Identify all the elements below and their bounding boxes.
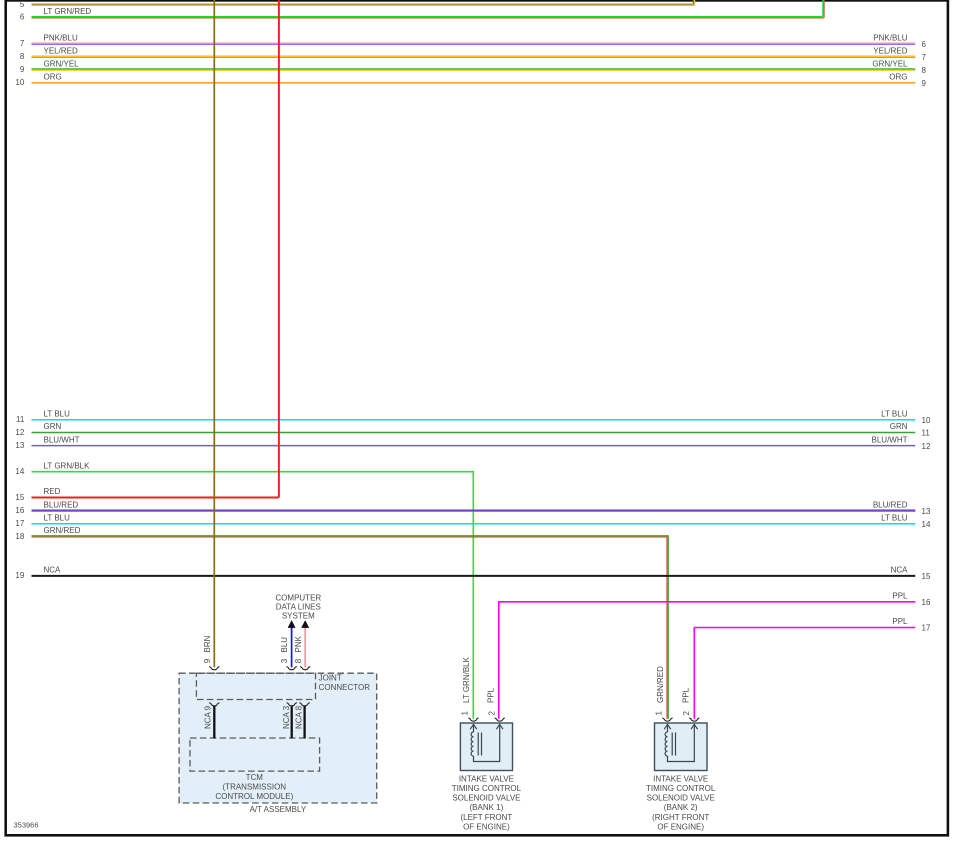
svg-text:INTAKE VALVE: INTAKE VALVE <box>459 774 514 783</box>
BRN vertical wire from off-page top to joint connector pin 9 <box>213 0 215 667</box>
svg-text:PPL: PPL <box>486 687 495 703</box>
TCM dashed box <box>190 738 320 771</box>
svg-text:GRN: GRN <box>890 422 908 431</box>
wire PPL (right pin 16) down to solenoid 1 pin 2 <box>499 602 916 719</box>
svg-text:11: 11 <box>16 415 25 424</box>
wire 5 BRN/YEL horizontal (pin 5 to x=694 turn up off-page) <box>32 0 695 5</box>
svg-text:OF ENGINE): OF ENGINE) <box>463 823 510 832</box>
svg-text:12: 12 <box>922 442 931 451</box>
svg-text:PPL: PPL <box>892 617 908 626</box>
svg-text:6: 6 <box>20 13 25 22</box>
svg-text:15: 15 <box>15 493 24 502</box>
svg-text:PNK/BLU: PNK/BLU <box>873 33 907 42</box>
wire 15 RED horizontal joining red vertical <box>32 497 279 499</box>
solenoid 2 caption <box>646 774 716 831</box>
svg-text:10: 10 <box>922 416 931 425</box>
BLU data line wire with up arrow <box>291 627 293 668</box>
svg-text:TIMING CONTROL: TIMING CONTROL <box>646 784 716 793</box>
svg-text:DATA LINES: DATA LINES <box>276 603 321 612</box>
svg-text:17: 17 <box>15 519 24 528</box>
svg-text:BLU/WHT: BLU/WHT <box>44 435 80 444</box>
svg-text:COMPUTER: COMPUTER <box>275 593 321 602</box>
solenoid valve bank 2 box <box>655 723 708 771</box>
svg-text:ORG: ORG <box>889 73 907 82</box>
wire 11 LT BLU horizontal (left pin 11 to right pin 10) <box>32 419 916 421</box>
NCA 3 internal wire between joint connector and TCM <box>291 706 293 739</box>
svg-text:TCM: TCM <box>246 773 264 782</box>
svg-text:13: 13 <box>15 441 24 450</box>
svg-text:9: 9 <box>20 65 25 74</box>
terminal cup at top of NCA 9 <box>209 703 219 706</box>
svg-text:9: 9 <box>203 658 212 663</box>
svg-text:TIMING CONTROL: TIMING CONTROL <box>452 784 522 793</box>
terminal cup at solenoid 2 pin 2 <box>689 718 699 721</box>
svg-text:INTAKE VALVE: INTAKE VALVE <box>653 774 708 783</box>
terminal cup at solenoid 2 pin 1 <box>662 718 672 721</box>
svg-text:9: 9 <box>922 79 927 88</box>
svg-text:CONNECTOR: CONNECTOR <box>319 683 371 692</box>
solenoid 1 internal circuit: pin1 arrow, coil, core, pin2 arrow <box>470 724 503 761</box>
svg-text:2: 2 <box>682 711 691 716</box>
svg-text:BLU/RED: BLU/RED <box>44 501 79 510</box>
svg-text:BLU: BLU <box>280 637 289 653</box>
svg-text:NCA 3: NCA 3 <box>282 705 291 729</box>
wire 12 GRN horizontal (left pin 12 to right pin 11) <box>32 432 916 434</box>
svg-text:353966: 353966 <box>14 821 39 830</box>
svg-text:2: 2 <box>488 711 497 716</box>
wire 19 NCA horizontal (left pin 19 to right pin 15) <box>32 575 916 577</box>
svg-text:CONTROL MODULE): CONTROL MODULE) <box>215 792 293 801</box>
wire 18 GRN/RED horizontal then down to solenoid 2 pin 1 <box>32 536 669 719</box>
svg-text:PNK: PNK <box>294 635 303 652</box>
svg-text:8: 8 <box>294 658 303 663</box>
svg-text:GRN/YEL: GRN/YEL <box>44 59 80 68</box>
svg-text:LT BLU: LT BLU <box>881 410 908 419</box>
svg-text:8: 8 <box>20 52 25 61</box>
terminal cup at solenoid 1 pin 2 <box>495 718 505 721</box>
svg-text:LT GRN/BLK: LT GRN/BLK <box>462 656 471 703</box>
svg-text:NCA: NCA <box>891 566 909 575</box>
svg-text:15: 15 <box>922 572 931 581</box>
wire 13 BLU/WHT horizontal (left pin 13 to right pin 12) <box>32 445 916 447</box>
svg-text:1: 1 <box>461 711 470 716</box>
svg-text:1: 1 <box>655 711 664 716</box>
wire 14 LT GRN/BLK horizontal then down to solenoid 1 pin 1 <box>32 472 474 719</box>
svg-text:NCA 8: NCA 8 <box>295 705 304 729</box>
wire 7 PNK/BLU horizontal (left pin 7 to right pin 6) <box>32 43 916 44</box>
svg-text:LT GRN/RED: LT GRN/RED <box>44 7 92 16</box>
svg-text:PPL: PPL <box>892 592 908 601</box>
svg-text:LT BLU: LT BLU <box>44 514 71 523</box>
wire 10 ORG horizontal (left pin 10 to right pin 9) <box>32 82 916 84</box>
svg-text:10: 10 <box>15 78 24 87</box>
svg-text:LT BLU: LT BLU <box>881 514 908 523</box>
svg-text:SOLENOID VALVE: SOLENOID VALVE <box>647 794 715 803</box>
NCA 8 internal wire between joint connector and TCM <box>303 706 305 739</box>
JOINT CONNECTOR dashed box <box>196 673 315 699</box>
svg-text:(LEFT FRONT: (LEFT FRONT <box>460 813 512 822</box>
wire 6 LT GRN/RED horizontal (pin 6 to x=823.5 turn up off-page) <box>32 0 825 18</box>
solenoid valve bank 1 box <box>460 723 512 771</box>
svg-text:PNK/BLU: PNK/BLU <box>44 33 78 42</box>
svg-text:NCA: NCA <box>44 566 62 575</box>
svg-text:PPL: PPL <box>682 687 691 703</box>
svg-text:5: 5 <box>20 0 25 9</box>
svg-text:YEL/RED: YEL/RED <box>873 46 907 55</box>
svg-text:RED: RED <box>44 487 61 496</box>
svg-text:16: 16 <box>922 598 931 607</box>
svg-text:8: 8 <box>922 66 927 75</box>
svg-text:(TRANSMISSION: (TRANSMISSION <box>223 782 287 791</box>
svg-text:14: 14 <box>922 520 931 529</box>
svg-text:11: 11 <box>922 429 931 438</box>
wire 9 GRN/YEL horizontal (left pin 9 to right pin 8) <box>32 69 916 70</box>
NCA 9 internal wire between joint connector and TCM <box>213 706 215 739</box>
wire 8 YEL/RED horizontal (left pin 8 to right pin 7) <box>32 56 916 57</box>
svg-text:19: 19 <box>15 571 24 580</box>
svg-text:14: 14 <box>15 467 24 476</box>
svg-text:LT GRN/BLK: LT GRN/BLK <box>44 461 91 470</box>
svg-text:7: 7 <box>20 39 25 48</box>
PNK data line wire with up arrow <box>304 627 306 668</box>
terminal cup at joint connector pin 9 (BRN) <box>209 667 219 670</box>
svg-text:A/T ASSEMBLY: A/T ASSEMBLY <box>250 805 307 814</box>
wire 16 BLU/RED horizontal (left pin 16 to right pin 13) <box>32 510 916 511</box>
svg-text:SYSTEM: SYSTEM <box>282 612 315 621</box>
RED vertical wire from off-page top to wire 15 <box>278 0 280 498</box>
COMPUTER DATA LINES SYSTEM text <box>275 593 321 620</box>
svg-text:12: 12 <box>15 428 24 437</box>
svg-text:GRN/RED: GRN/RED <box>44 526 81 535</box>
svg-text:16: 16 <box>15 506 24 515</box>
svg-text:NCA 9: NCA 9 <box>203 705 212 729</box>
wire 17 LT BLU horizontal (left pin 17 to right pin 14) <box>32 523 916 525</box>
terminal cup at solenoid 1 pin 1 <box>468 718 478 721</box>
svg-text:GRN: GRN <box>44 422 62 431</box>
svg-text:GRN/YEL: GRN/YEL <box>872 59 908 68</box>
svg-text:ORG: ORG <box>44 73 62 82</box>
svg-text:(BANK 1): (BANK 1) <box>470 803 504 812</box>
svg-text:GRN/RED: GRN/RED <box>656 666 665 703</box>
svg-text:13: 13 <box>922 507 931 516</box>
svg-text:6: 6 <box>922 40 927 49</box>
TCM label <box>215 773 293 801</box>
svg-text:17: 17 <box>922 624 931 633</box>
terminal cup at top of NCA 8 <box>300 703 310 706</box>
svg-text:YEL/RED: YEL/RED <box>44 46 78 55</box>
svg-text:LT BLU: LT BLU <box>44 410 71 419</box>
solenoid 2 internal circuit: pin1 arrow, coil, core, pin2 arrow <box>664 724 697 761</box>
svg-text:BLU/WHT: BLU/WHT <box>872 435 908 444</box>
svg-text:OF ENGINE): OF ENGINE) <box>657 823 704 832</box>
svg-text:3: 3 <box>280 658 289 663</box>
svg-text:(RIGHT FRONT: (RIGHT FRONT <box>652 813 709 822</box>
A/T ASSEMBLY dashed box <box>179 673 377 803</box>
terminal cup at joint connector pin 8 (PNK) <box>300 667 310 670</box>
terminal cup at top of NCA 3 <box>287 703 297 706</box>
svg-text:7: 7 <box>922 53 927 62</box>
svg-text:18: 18 <box>15 532 24 541</box>
solenoid 1 caption <box>452 774 522 831</box>
svg-text:JOINT: JOINT <box>319 673 342 682</box>
svg-text:BRN: BRN <box>203 635 212 652</box>
svg-text:SOLENOID VALVE: SOLENOID VALVE <box>452 794 520 803</box>
terminal cup at joint connector pin 3 (BLU) <box>287 667 297 670</box>
wire PPL (right pin 17) down to solenoid 2 pin 2 <box>694 628 915 719</box>
svg-text:(BANK 2): (BANK 2) <box>664 803 698 812</box>
svg-text:BLU/RED: BLU/RED <box>873 501 908 510</box>
